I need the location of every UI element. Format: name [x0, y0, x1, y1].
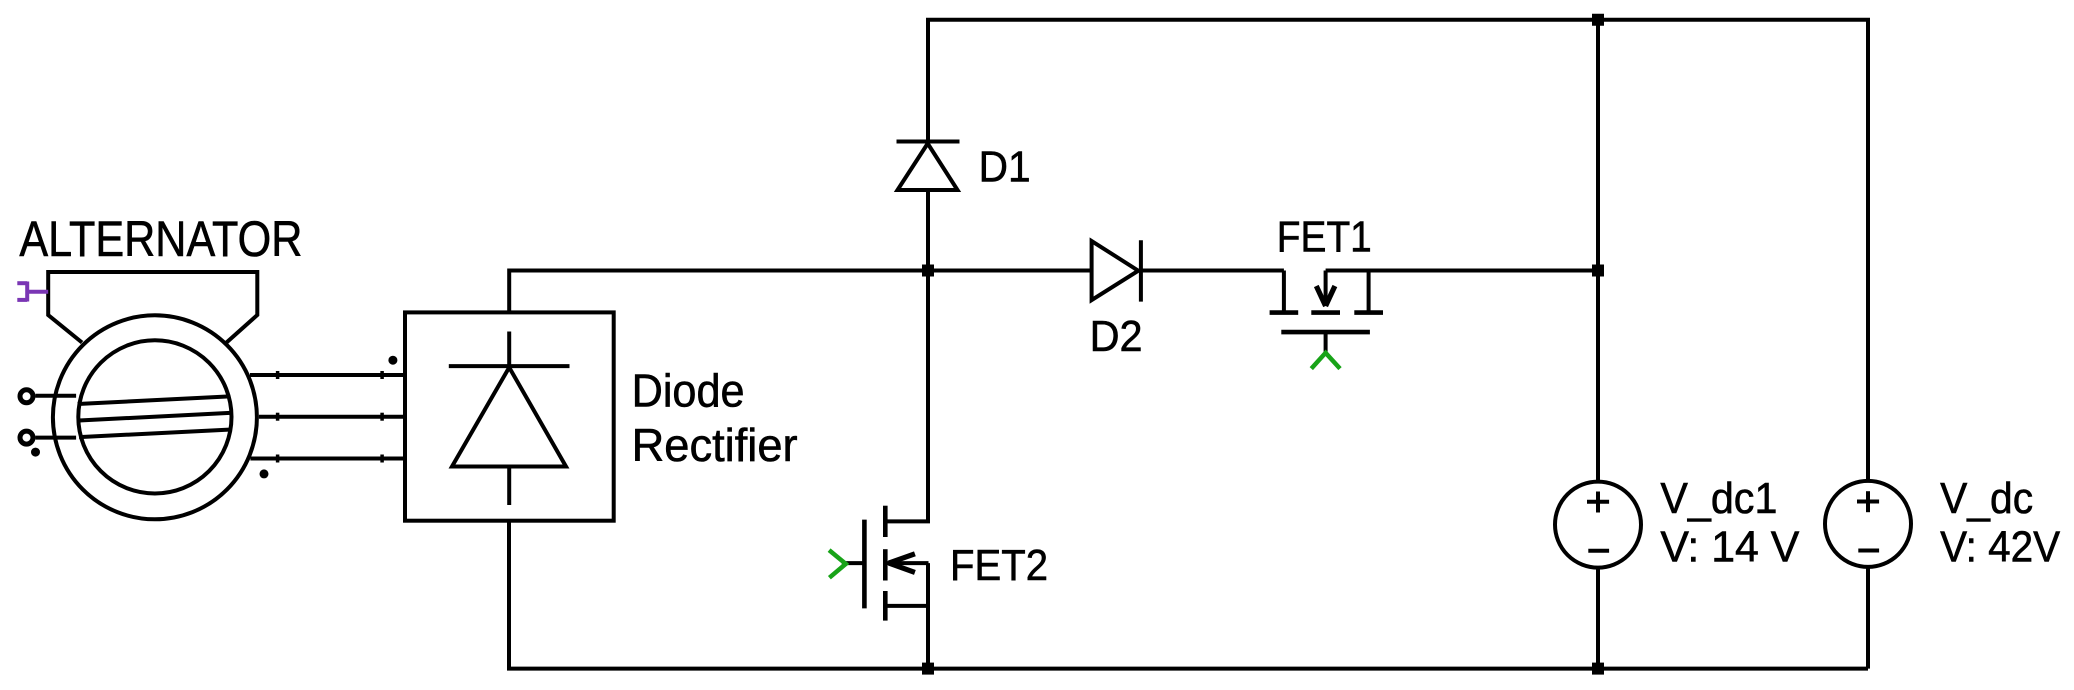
- svg-text:Diode: Diode: [632, 364, 745, 416]
- svg-text:D1: D1: [979, 143, 1031, 192]
- svg-text:ALTERNATOR: ALTERNATOR: [19, 211, 302, 267]
- svg-text:V_dc: V_dc: [1940, 474, 2033, 523]
- svg-text:V: 14 V: V: 14 V: [1660, 523, 1800, 572]
- svg-text:V: 42V: V: 42V: [1940, 523, 2061, 572]
- svg-text:FET1: FET1: [1277, 213, 1372, 262]
- svg-text:FET2: FET2: [950, 541, 1048, 590]
- svg-text:Rectifier: Rectifier: [632, 419, 798, 471]
- svg-text:V_dc1: V_dc1: [1660, 474, 1777, 523]
- svg-text:D2: D2: [1090, 312, 1143, 361]
